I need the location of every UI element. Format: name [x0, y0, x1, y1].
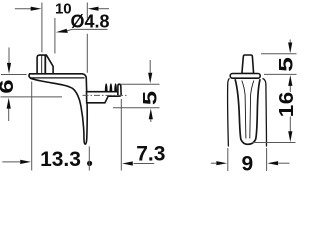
dim 9: ext line right [266, 148, 268, 171]
body flange + spike outline [29, 74, 87, 144]
dim text 6 [0, 79, 17, 93]
dim 5 (pin): ext line top [121, 83, 160, 85]
dim 6: bottom arrow [8, 109, 10, 122]
svg-text:6: 6 [0, 79, 17, 93]
dim 7.3: arrow [134, 163, 155, 165]
dim 10: ext line left [41, 3, 43, 53]
svg-text:9: 9 [241, 152, 253, 174]
dim 6: ext line top [1, 74, 27, 76]
dim 9: left arrow [211, 162, 216, 164]
svg-text:16: 16 [276, 91, 298, 117]
dim 10: right arrow [98, 8, 109, 10]
dim 13.3: arrow [2, 161, 20, 163]
ext line from spike tip [88, 146, 90, 170]
body left edge [228, 78, 230, 146]
dim text 16 [276, 91, 298, 117]
dim 16: ext line bottom [252, 142, 296, 144]
junction dot [87, 161, 92, 166]
blade ridge line right [250, 81, 254, 139]
dim 6: ext line bottom [1, 96, 63, 98]
dim 5 right: top arrow [289, 40, 291, 43]
svg-text:Ø4.8: Ø4.8 [70, 12, 109, 32]
dim 16: down arrow [289, 117, 291, 133]
dim 5/16 shared ext line [264, 73, 297, 75]
svg-text:10: 10 [55, 1, 72, 18]
dim 9: right arrow [278, 162, 289, 164]
pin rib teeth [105, 83, 117, 92]
ribbed dowel pin (arm) [87, 92, 119, 103]
front peg [242, 55, 254, 74]
svg-text:5: 5 [275, 57, 296, 72]
svg-text:7.3: 7.3 [136, 143, 165, 166]
dim 10: left arrow [15, 8, 31, 10]
flange bottom edge [30, 77, 84, 79]
dim 5 (pin): ext line bottom [113, 107, 160, 109]
dim text 5 [140, 91, 161, 105]
svg-text:5: 5 [140, 91, 161, 105]
dim 13.3: ext line left [31, 82, 33, 171]
dim 9: ext line left [227, 148, 229, 171]
dim 5 (right fig): ext line top [261, 53, 297, 55]
dim text 5 right [275, 57, 296, 72]
dim Ø4.8: leader ext line [54, 18, 56, 54]
pin end cap [118, 84, 121, 96]
collar plate [230, 74, 260, 79]
dim 16: up arrow [289, 85, 291, 92]
peg inner line thick [44, 55, 46, 75]
dim 7.3: ext line [120, 99, 122, 171]
dim 5: bottom arrow [150, 119, 152, 122]
dim Ø4.8: leader arrow [67, 29, 108, 31]
body right edge [263, 78, 267, 146]
pin peg (top, side view) [37, 55, 53, 76]
blade ridge line left [242, 81, 246, 139]
dim 6: top arrow [8, 48, 10, 64]
centerline of pin [83, 94, 127, 96]
dim 10: ext line right [86, 3, 88, 73]
dim 5: top arrow [149, 60, 151, 73]
peg inner line thin [41, 55, 43, 75]
blade outline [235, 79, 260, 144]
svg-text:13.3: 13.3 [40, 148, 81, 171]
